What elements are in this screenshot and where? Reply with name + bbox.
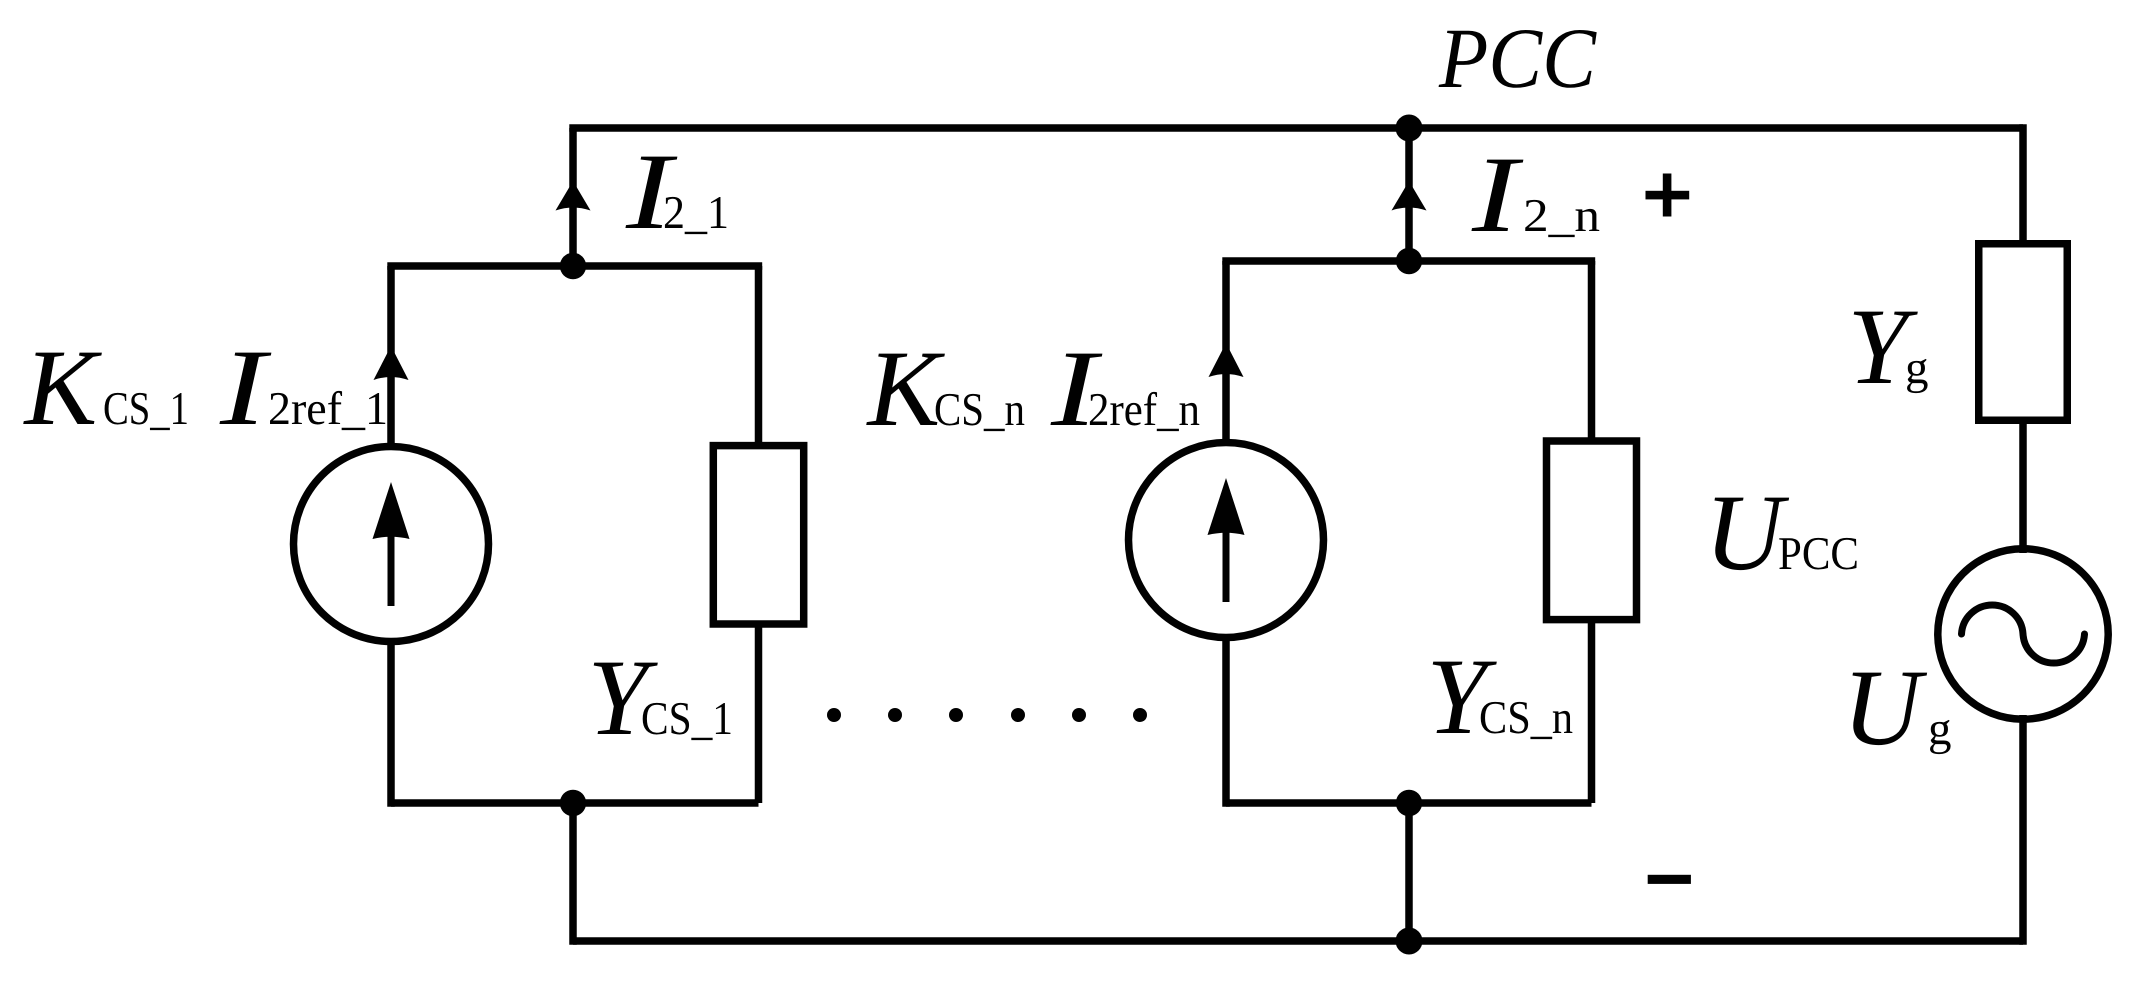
wire cell1 top (387, 262, 762, 270)
wire celln right lower (1588, 620, 1596, 803)
arrowhead celln source feed (1209, 343, 1244, 377)
arrow inside CS_1 (373, 482, 410, 606)
svg-text:CS_n: CS_n (934, 384, 1025, 436)
label I_2_1 (625, 131, 729, 252)
wire right drop to Yg (2019, 124, 2027, 244)
wire celln left lower (1222, 637, 1230, 807)
svg-text:g: g (1928, 703, 1952, 755)
label K_CS_1 I_2ref_1 (23, 327, 389, 448)
node junction celln bottom (1396, 790, 1422, 816)
svg-text:g: g (1905, 342, 1929, 394)
node PCC junction (1396, 115, 1423, 142)
resistor Y_g (1979, 244, 2068, 421)
svg-text:2_1: 2_1 (663, 187, 729, 239)
arrowhead I2_1 riser (556, 181, 591, 211)
wire riser I2_n (1405, 128, 1413, 264)
svg-text:U: U (1843, 647, 1928, 768)
wire left riser bottom (569, 799, 577, 945)
wire celln right upper (1588, 261, 1596, 441)
svg-text:I: I (1471, 134, 1524, 255)
svg-text:2ref_n: 2ref_n (1088, 384, 1200, 436)
resistor Y_CS_n (1547, 441, 1637, 620)
svg-text:PCC: PCC (1438, 10, 1597, 106)
node junction cell1 bottom (560, 790, 586, 816)
arrow inside CS_n (1208, 478, 1245, 602)
svg-text:I: I (219, 327, 272, 448)
voltage source U_g circle (1938, 549, 2108, 719)
svg-text:CS_n: CS_n (1479, 692, 1573, 744)
label Y_g (1848, 286, 1929, 407)
svg-text:CS_1: CS_1 (641, 693, 733, 745)
svg-text:2_n: 2_n (1523, 190, 1600, 242)
current source CS_n circle (1129, 443, 1324, 638)
svg-text:K: K (23, 327, 103, 448)
wire celln left upper (1222, 261, 1230, 443)
wire cell1 left lower (387, 641, 395, 807)
label K_CS_n I_2ref_n (866, 328, 1201, 449)
wire cell1 right upper (755, 266, 763, 445)
wire cell1 left upper (387, 266, 395, 447)
current source CS_1 circle (294, 447, 489, 642)
wire celln bottom (1226, 799, 1592, 807)
label Y_CS_1 (588, 637, 734, 758)
arrowhead cell1 source feed (374, 346, 409, 380)
label Y_CS_n (1427, 636, 1574, 757)
svg-text:CS_1: CS_1 (103, 383, 189, 435)
wire cell1 right lower (755, 624, 763, 803)
wire riser celln bottom (1405, 803, 1413, 941)
label I_2_n (1471, 134, 1600, 255)
svg-text:PCC: PCC (1778, 528, 1859, 580)
wire riser I2_1 (569, 128, 577, 269)
resistor Y_CS_1 (713, 446, 803, 624)
node junction bottom rail (1396, 928, 1423, 955)
wire celln top (1222, 257, 1595, 265)
node junction celln top (1396, 248, 1422, 274)
wire Yg to Ug (2019, 420, 2027, 553)
ellipsis dots between cells (827, 708, 1147, 722)
wire cell1 bottom (391, 799, 759, 807)
svg-text:2ref_1: 2ref_1 (268, 383, 388, 435)
label U_PCC (1705, 472, 1860, 593)
plus sign (1646, 174, 1690, 217)
wire Ug to bottom rail (2019, 715, 2027, 945)
wire bottom rail (573, 937, 2023, 945)
svg-text:U: U (1705, 472, 1790, 593)
minus sign (1648, 875, 1691, 884)
label U_g (1843, 647, 1952, 768)
node junction cell1 top (560, 253, 586, 279)
sine symbol in U_g (1962, 605, 2085, 663)
arrowhead I2_n riser (1392, 181, 1427, 211)
wire top rail PCC (569, 124, 2023, 132)
